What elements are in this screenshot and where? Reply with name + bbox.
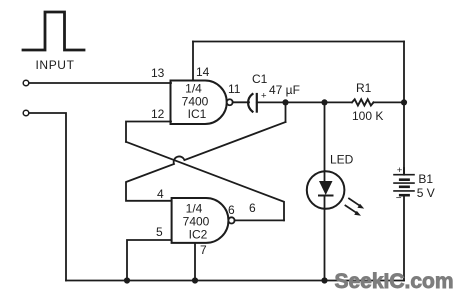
NAND gate IC1 (171, 81, 227, 125)
svg-text:B1: B1 (418, 172, 433, 186)
LED circle (307, 171, 345, 209)
wire IC1 pin 14 to top rail (192, 42, 194, 81)
svg-text:1/4: 1/4 (186, 202, 203, 216)
right rail upper (403, 42, 405, 175)
svg-text:IC1: IC1 (188, 107, 207, 121)
resistor R1 zigzag (352, 99, 374, 105)
junction node LED ground (321, 277, 327, 283)
junction node pin5 ground (124, 277, 130, 283)
IC1 output bubble (227, 99, 233, 105)
wire node to resistor (286, 101, 352, 103)
svg-text:IC2: IC2 (189, 228, 208, 242)
junction node pin7 ground (192, 277, 198, 283)
wire IC1 pin 12 (126, 122, 171, 142)
battery top lead (403, 168, 405, 175)
svg-text:12: 12 (151, 107, 165, 121)
IC2 output bubble (228, 217, 234, 223)
svg-text:47 µF: 47 µF (269, 83, 300, 97)
bottom rail (66, 280, 404, 282)
wire IC2 output pin 6 (235, 219, 284, 221)
right rail lower (403, 196, 405, 281)
svg-text:R1: R1 (356, 81, 372, 95)
svg-text:5 V: 5 V (417, 186, 435, 200)
LED arrow 2 (345, 205, 358, 213)
svg-text:LED: LED (330, 153, 354, 167)
svg-text:6: 6 (249, 201, 256, 215)
svg-text:1/4: 1/4 (185, 82, 202, 96)
cross wire D2 (C1 node to IC2 pin4) with hop (126, 122, 286, 201)
wire IC2 pin 5 (127, 240, 172, 281)
svg-text:13: 13 (151, 66, 165, 80)
svg-text:7: 7 (200, 243, 207, 257)
wire input bottom to left rail (29, 113, 66, 281)
wire LED to bottom rail (324, 209, 326, 281)
junction node at C1 output (282, 99, 288, 105)
svg-text:100 K: 100 K (352, 109, 383, 123)
LED cathode bar (319, 195, 333, 197)
svg-text:4: 4 (157, 187, 164, 201)
LED triangle (319, 181, 333, 195)
svg-text:7400: 7400 (183, 215, 210, 229)
capacitor C1 straight plate (256, 94, 258, 112)
svg-text:5: 5 (156, 225, 163, 239)
wire IC1 output to capacitor (233, 101, 249, 103)
input terminal bottom (23, 110, 29, 116)
svg-text:−: − (396, 193, 402, 204)
LED arrow 1 (348, 198, 360, 206)
NAND gate IC2 (172, 198, 229, 243)
svg-text:SeekIC.com: SeekIC.com (335, 270, 454, 293)
top rail (193, 41, 404, 43)
wire IC2 pin 7 (194, 243, 196, 281)
wire input to IC1 pin 13 (29, 82, 171, 84)
junction node resistor right (401, 99, 407, 105)
battery B1 plates (394, 174, 414, 176)
capacitor C1 curved plate (248, 94, 252, 112)
svg-text:+: + (397, 165, 403, 176)
svg-text:11: 11 (228, 82, 241, 96)
vertical from node down to D2 (285, 102, 287, 122)
input terminal top (23, 80, 29, 86)
wire resistor to right rail (374, 101, 405, 103)
svg-text:6: 6 (228, 203, 235, 217)
input pulse waveform (23, 12, 84, 50)
svg-text:C1: C1 (252, 72, 268, 86)
svg-text:INPUT: INPUT (36, 58, 75, 72)
wire LED node down to LED (324, 102, 326, 171)
cross wire D1 (IC1 pin12 to IC2 output) (126, 142, 284, 221)
junction node LED branch top (321, 99, 327, 105)
wire capacitor to node (257, 101, 286, 103)
LED internal wires (324, 171, 326, 209)
svg-text:14: 14 (196, 65, 210, 79)
svg-text:+: + (261, 90, 267, 101)
